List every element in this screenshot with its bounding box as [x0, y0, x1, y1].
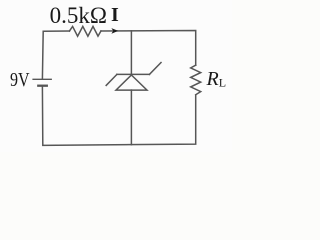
zener anode triangle [116, 75, 147, 90]
wire zener bottom lead [130, 90, 132, 145]
wire top-left segment [42, 31, 69, 79]
label I [111, 5, 119, 25]
zener diode D1 cathode bar [117, 73, 149, 75]
battery B1 long plate [33, 78, 51, 80]
wire left-bottom segment [42, 87, 195, 145]
label 9V [10, 70, 30, 90]
wire top-right segment [101, 31, 196, 66]
node junction top of zener branch [130, 31, 132, 75]
resistor RL zigzag [191, 65, 201, 95]
label RL [207, 69, 227, 93]
current arrow I [111, 28, 118, 34]
zener right bent tip [149, 63, 161, 75]
label 0.5kOhm [50, 4, 107, 27]
battery B1 short plate [38, 85, 47, 87]
zener left bent tip [106, 74, 117, 85]
resistor 0.5k zigzag [69, 26, 101, 36]
